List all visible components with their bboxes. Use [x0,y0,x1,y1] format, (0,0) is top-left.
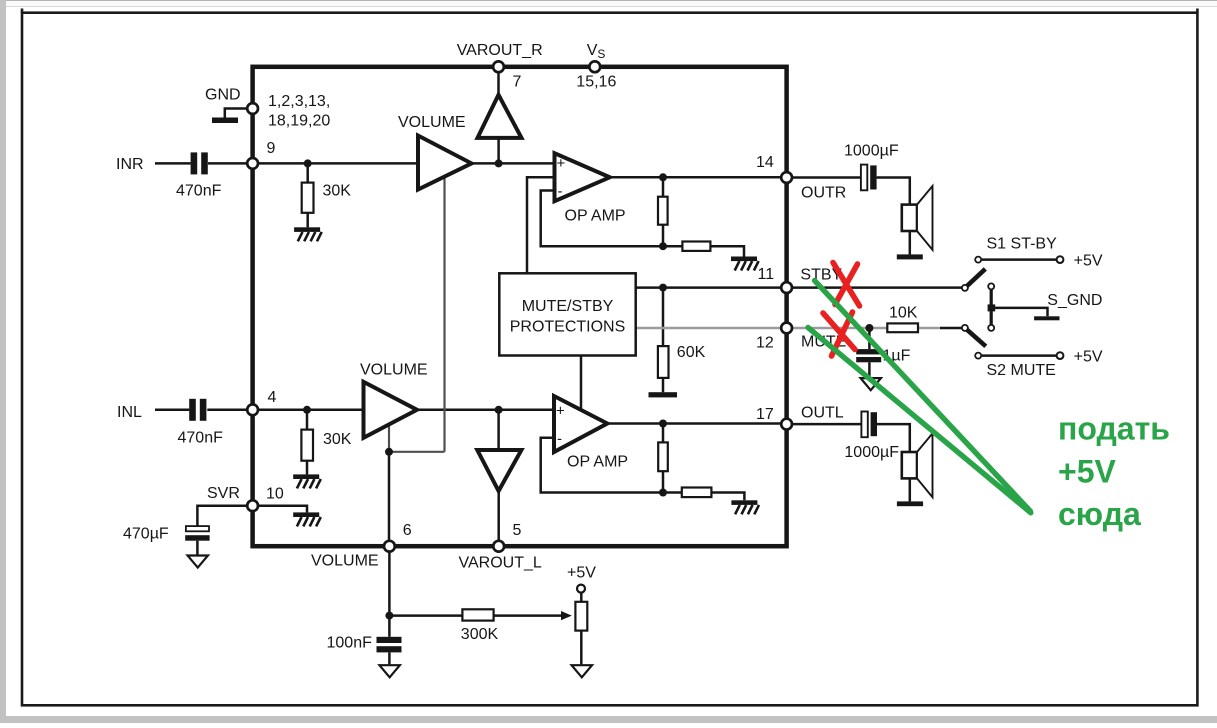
wire C 470nF to pin 9 [208,162,247,165]
wire feedback R loop to minus input [541,191,663,247]
capacitor 1uF [856,349,881,354]
terminal +5V pot [577,585,585,593]
capacitor 1000uF L [861,412,867,438]
svg-text:14: 14 [756,154,774,171]
buffer VAROUT_R [478,95,522,138]
svg-text:+5V: +5V [1058,454,1116,490]
wire pin 6 to 100nF node [388,552,391,637]
svg-text:100nF: 100nF [327,635,373,652]
capacitor 470nF L [189,399,196,421]
junction dots [304,159,312,167]
wire pin 6 net vertical [388,452,391,541]
switch small contacts [975,257,981,263]
wire 1000uF to speaker L [877,424,910,452]
svg-text:30K: 30K [323,431,352,448]
wire 300K to pot arrow [494,614,563,617]
wire volume tap horizontal [389,451,445,453]
block MUTE/STBY PROTECTIONS [499,273,635,355]
op-amp R [555,153,610,201]
wire buffer L apex to pin 5 [497,491,500,541]
svg-text:470µF: 470µF [123,525,169,542]
speaker R [902,205,917,231]
svg-text:+: + [557,155,566,172]
svg-text:GND: GND [205,86,241,103]
svg-text:9: 9 [267,140,276,157]
wire pin 17 to 1000uF L [792,423,861,426]
wire feedback R vertical [662,177,665,246]
svg-text:OUTL: OUTL [801,404,844,421]
wire feedback L vertical [662,424,665,493]
capacitor 470nF R [191,152,198,174]
wire GND pin symbol [225,109,248,118]
capacitor 470uF SVR [186,526,209,531]
ground hatched feedback R [731,257,759,271]
wire S2 contact to +5V [981,354,1057,357]
wire INL input lead [155,409,189,412]
amplifier VOLUME L [364,382,418,438]
wire buffer base to node [497,138,500,163]
wire 60K drop [662,288,665,393]
svg-text:300K: 300K [461,626,499,643]
switch S1 lever [965,269,985,288]
svg-text:SVR: SVR [207,485,240,502]
switch common link [990,289,993,325]
resistor 30K L [301,430,313,461]
svg-text:+: + [556,403,565,420]
svg-text:VOLUME: VOLUME [311,553,379,570]
annotation red X over STBY [833,263,860,307]
ground hatched pin 10 [293,512,321,526]
ground triangle 100nF [379,665,399,677]
wire pin 9 to VOLUME input [255,162,418,165]
svg-text:VOLUME: VOLUME [360,362,428,379]
svg-text:+5V: +5V [1074,349,1103,366]
wire node to 30K [306,163,309,182]
pin circles [247,103,258,114]
wire S_GND link [995,308,1048,316]
svg-text:+5V: +5V [1074,253,1103,270]
IC U1 body [253,67,787,546]
resistor 30K R [302,183,314,213]
annotation green line from STBY [815,281,1031,512]
ground bar speaker R [897,254,923,259]
ground GND pin bar [212,118,238,124]
wire pin 10 to internal ground [258,506,307,513]
resistor 300K [462,609,493,620]
svg-text:MUTE/STBY: MUTE/STBY [522,298,614,315]
wire buffer apex to pin 7 [497,72,500,94]
switch common junction square [988,304,996,311]
resistor feedback R horizontal [682,242,710,251]
ground hatched 30K R [294,227,322,241]
svg-text:1,2,3,13,: 1,2,3,13, [268,93,330,110]
svg-text:сюда: сюда [1058,496,1141,532]
svg-text:5: 5 [513,522,522,539]
annotation green line from MUTE [808,328,1031,513]
ground triangle pot [572,665,592,677]
svg-text:17: 17 [756,406,774,423]
svg-text:OP AMP: OP AMP [565,208,626,225]
resistor feedback L vertical [658,442,668,471]
ground triangle 1uF [861,378,881,390]
potentiometer body [575,602,587,631]
wire SVR to 470uF [197,506,247,526]
wire VOLUME out to OP AMP + [472,162,555,165]
svg-text:10: 10 [266,486,284,503]
wire pot to ground [580,631,583,665]
amplifier VOLUME R [418,136,472,190]
wire feedback R to ground [663,246,744,256]
svg-text:INL: INL [117,404,142,421]
svg-text:подать: подать [1058,411,1170,447]
ground hatched feedback L [731,500,759,514]
svg-text:7: 7 [513,74,522,91]
svg-text:470nF: 470nF [178,429,224,446]
wire STBY net pin 11 [636,286,962,289]
wire OP AMP L output to pin 17 [607,422,781,425]
ground hatched 30K L [293,474,321,488]
annotation red X over MUTE [823,312,855,356]
wire 30K L to ground [306,461,309,475]
wire feedback L loop to minus input [541,438,663,493]
buffer VAROUT_L [477,450,521,491]
ground bar speaker L [897,501,923,506]
svg-text:1000µF: 1000µF [844,444,899,461]
wire mute box to OP AMP R [527,177,555,273]
ground bar S_GND [1034,316,1059,320]
wire volume tap L [388,425,390,452]
resistor feedback R vertical [658,197,668,225]
svg-text:-: - [558,183,563,200]
wire volume tap R [443,178,445,452]
wire 100nF node to 300K [389,614,462,617]
svg-text:S_GND: S_GND [1047,292,1102,309]
svg-text:15,16: 15,16 [576,74,616,91]
ground triangle 470uF [188,556,208,568]
svg-text:+5V: +5V [567,565,596,582]
svg-text:6: 6 [403,522,412,539]
wire VOLUME L out to OP AMP + [417,409,554,412]
svg-text:-: - [557,431,562,448]
capacitor 1000uF R [861,165,867,191]
svg-text:4: 4 [268,389,277,406]
terminal +5V S1 [1057,256,1064,263]
wire C 470nF to pin 4 [207,409,247,412]
svg-text:VAROUT_R: VAROUT_R [457,42,543,59]
svg-text:S2 MUTE: S2 MUTE [987,362,1056,379]
wire 1uF drop [868,328,871,377]
svg-text:10K: 10K [889,305,918,322]
wire node to buffer L [497,410,500,450]
svg-text:OP AMP: OP AMP [567,454,628,471]
wire INR input lead [155,162,191,165]
svg-text:PROTECTIONS: PROTECTIONS [510,318,626,335]
wire 10K to S2 pole [940,327,962,330]
svg-text:30K: 30K [323,183,352,200]
wire node to 30K L [306,410,309,430]
speaker L [902,452,917,478]
wire 100nF to ground [388,652,391,664]
terminal +5V S2 [1057,352,1064,359]
wire feedback L to ground [663,493,744,501]
svg-text:470nF: 470nF [176,183,222,200]
wire +5V to pot [580,592,583,601]
ground bar 60K [649,392,678,397]
resistor 60K [658,346,669,378]
potentiometer wiper arrow [561,611,572,620]
resistor feedback L horizontal [682,488,712,498]
wire 1000uF to speaker R [877,178,910,205]
wire 470uF to ground [196,541,199,556]
svg-text:12: 12 [756,335,774,352]
svg-text:18,19,20: 18,19,20 [268,113,330,130]
svg-text:1000µF: 1000µF [844,142,899,159]
capacitor 100nF [377,637,402,643]
svg-text:60K: 60K [677,344,706,361]
wire speaker R to ground [909,230,912,254]
wire OP AMP R output to pin 14 [610,176,782,179]
wire MUTE net pin 12 (gray) [636,327,940,330]
svg-text:VAROUT_L: VAROUT_L [459,554,542,571]
switch S2 lever [965,328,986,346]
wire pin 4 to VOLUME L input [255,409,364,412]
wire S1 contact to +5V [981,258,1057,261]
annotation green text [1058,411,1170,533]
wire mute box to OP AMP L [580,356,583,410]
wire speaker L to ground [909,478,912,501]
resistor 10K [887,323,918,332]
wire 30K to ground [306,213,309,228]
svg-text:S1 ST-BY: S1 ST-BY [987,235,1058,252]
svg-text:INR: INR [116,156,144,173]
svg-text:OUTR: OUTR [801,185,846,202]
op-amp L [554,396,607,452]
svg-text:11: 11 [758,266,775,283]
wire pin 14 to 1000uF [792,176,861,179]
svg-text:VOLUME: VOLUME [398,114,466,131]
